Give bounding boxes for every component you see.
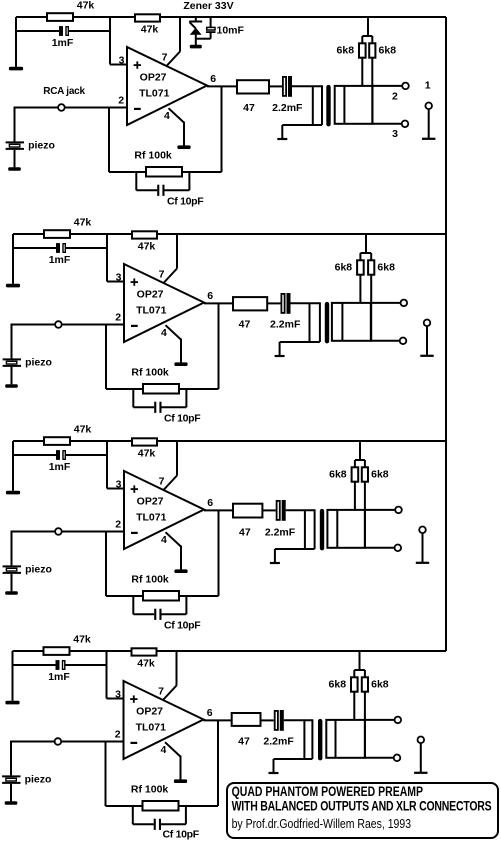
- wire: bias divider to ground ch3: [12, 441, 14, 491]
- resistor Rf 100k ch3: [143, 591, 179, 601]
- svg-text:6k8: 6k8: [329, 679, 347, 691]
- svg-text:47k: 47k: [74, 217, 92, 229]
- transformer T3 secondary winding: [327, 510, 365, 548]
- capacitor Cf 10pF ch1: [157, 185, 159, 196]
- resistor Rf 100k ch1: [146, 167, 182, 177]
- svg-text:6: 6: [210, 73, 216, 85]
- svg-text:47: 47: [238, 735, 250, 747]
- resistor 6k8 (right) ch1: [369, 43, 375, 57]
- wire: 6k8 left to secondary top ch1: [361, 58, 363, 86]
- resistor Rf 100k ch4: [143, 801, 179, 811]
- svg-text:2.2mF: 2.2mF: [272, 102, 303, 114]
- capacitor 2.2mF ch4: [275, 711, 278, 730]
- svg-text:OP27: OP27: [137, 496, 164, 508]
- ground (bias divider) ch2: [6, 284, 20, 288]
- ground (XLR pin 1) ch1: [422, 138, 435, 140]
- wire: decoupling rail ch1: [16, 30, 59, 32]
- svg-text:3: 3: [116, 478, 122, 490]
- wire: pin 6 output ch3: [204, 509, 233, 511]
- wire: primary to ground ch1: [281, 125, 283, 139]
- wire: pin 4 to ground ch2: [166, 325, 182, 339]
- wire: 47 to 2.2mF ch1: [269, 85, 282, 87]
- svg-text:6k8: 6k8: [371, 469, 389, 481]
- ground (piezo) ch3: [5, 591, 18, 595]
- ground (primary) ch1: [277, 138, 287, 140]
- resistor 6k8 (right) ch2: [368, 260, 374, 274]
- XLR pin 2 terminal ch1: [402, 83, 409, 90]
- svg-text:3: 3: [392, 128, 398, 140]
- svg-text:2: 2: [392, 90, 398, 102]
- wire: feedback bottom ch4: [106, 805, 219, 807]
- wire: piezo to ground ch4: [10, 784, 12, 802]
- wire: decoupling rail ch4: [13, 664, 56, 666]
- svg-text:2: 2: [115, 519, 121, 531]
- capacitor 2.2mF ch1: [283, 77, 286, 96]
- resistor 6k8 (left) ch1: [359, 43, 366, 57]
- XLR pin 3 terminal ch3: [395, 545, 402, 552]
- wire: Cf branch ch1: [135, 172, 137, 190]
- wire: pin 4 to ground ch4: [165, 742, 181, 756]
- wire: input to -input ch2: [12, 324, 56, 326]
- wire: pin 6 output ch2: [204, 302, 233, 304]
- ground (piezo) ch4: [5, 801, 18, 805]
- wire: XLR pin 2 ch3: [365, 509, 395, 511]
- svg-text:piezo: piezo: [25, 356, 52, 368]
- transformer T3 core: [320, 509, 324, 551]
- wire: piezo to ground ch2: [11, 367, 13, 385]
- svg-text:2: 2: [115, 312, 121, 324]
- RCA jack connector ch4: [55, 738, 62, 745]
- svg-text:6: 6: [207, 707, 213, 719]
- capacitor 1mF ch4: [56, 660, 60, 670]
- svg-text:3: 3: [119, 54, 125, 66]
- op-amp OP27/TL071 ch3: [124, 471, 204, 549]
- svg-text:47k: 47k: [73, 634, 91, 646]
- wire: supply rail channel 1: [16, 16, 446, 18]
- svg-text:2.2mF: 2.2mF: [265, 527, 296, 539]
- wire: pin 7 to supply ch1: [179, 17, 181, 52]
- capacitor Cf 10pF ch2: [154, 402, 156, 413]
- svg-text:Rf 100k: Rf 100k: [131, 783, 169, 795]
- wire: bias node to +input ch2: [106, 234, 108, 282]
- wire: 6k8 right to secondary bottom ch2: [370, 275, 372, 341]
- resistor 47k (bias lower) ch3: [132, 438, 157, 445]
- wire: jack to pin 2 ch3: [62, 531, 124, 533]
- piezo transducer ch1: [6, 141, 24, 143]
- resistor 47 ch4: [232, 713, 261, 726]
- wire: piezo to ground ch1: [14, 150, 16, 168]
- wire: XLR pin 2 ch2: [371, 302, 401, 304]
- svg-text:by Prof.dr.Godfried-Willem Rae: by Prof.dr.Godfried-Willem Raes, 1993: [232, 818, 411, 831]
- svg-text:6k8: 6k8: [371, 679, 389, 691]
- wire: supply rail channel 2: [13, 233, 446, 235]
- XLR pin 2 terminal ch2: [401, 300, 408, 307]
- ground (primary) ch4: [269, 772, 279, 774]
- svg-text:7: 7: [159, 268, 165, 280]
- title box: [227, 783, 498, 838]
- wire: feedback right leg to output ch1: [221, 86, 223, 172]
- wire: bias node to +input ch4: [106, 651, 108, 699]
- svg-text:piezo: piezo: [25, 563, 52, 575]
- svg-text:47: 47: [243, 102, 255, 114]
- resistor 6k8 (left) ch2: [357, 260, 364, 274]
- XLR pin 1 terminal ch1: [425, 103, 432, 110]
- wire: 2.2mF to transformer primary ch4: [284, 719, 313, 721]
- XLR pin 1 terminal ch2: [424, 320, 431, 327]
- wire: phantom feed ch1: [367, 17, 369, 36]
- ground (pin 4) ch4: [174, 779, 187, 783]
- transformer T2 primary winding: [309, 303, 311, 342]
- capacitor 10mF: [210, 17, 212, 28]
- svg-text:4: 4: [161, 534, 167, 546]
- svg-text:6: 6: [207, 497, 213, 509]
- svg-text:6k8: 6k8: [329, 469, 347, 481]
- wire: feedback right leg to output ch2: [218, 303, 220, 389]
- XLR pin 3 terminal ch4: [394, 755, 401, 762]
- wire: input to -input ch3: [12, 531, 56, 533]
- wire: feedback left leg ch3: [105, 532, 107, 597]
- svg-text:TL071: TL071: [139, 87, 170, 99]
- transformer T1 primary winding: [312, 86, 314, 125]
- svg-text:6k8: 6k8: [335, 262, 353, 274]
- svg-text:6: 6: [207, 290, 213, 302]
- wire: 6k8 left to secondary top ch4: [353, 692, 355, 720]
- svg-text:6k8: 6k8: [337, 45, 355, 57]
- svg-text:Cf 10pF: Cf 10pF: [167, 196, 204, 208]
- svg-text:WITH BALANCED OUTPUTS AND XLR: WITH BALANCED OUTPUTS AND XLR CONNECTORS: [232, 798, 492, 814]
- resistor 47 ch1: [237, 80, 269, 93]
- wire: XLR pin 3 ch2: [371, 340, 400, 342]
- wire: primary to ground ch4: [273, 759, 275, 773]
- resistor 47k (bias lower) ch2: [132, 231, 157, 238]
- resistor 47k (bias upper) ch3: [44, 437, 70, 445]
- svg-text:OP27: OP27: [137, 289, 164, 301]
- svg-text:OP27: OP27: [140, 72, 167, 84]
- ground (piezo) ch1: [8, 167, 21, 171]
- wire: jack to pin 2 ch2: [62, 324, 124, 326]
- wire: Cf branch ch4: [132, 806, 134, 824]
- wire: feedback right leg to output ch3: [218, 510, 220, 596]
- wire: pin 7 to supply ch4: [176, 651, 178, 686]
- resistor 47k (bias lower) ch4: [132, 648, 157, 655]
- wire: 2.2mF to transformer primary ch3: [286, 509, 315, 511]
- ground (zener): [190, 45, 202, 49]
- resistor 6k8 (left) ch3: [352, 467, 359, 481]
- wire: decoupling rail ch3: [13, 454, 56, 456]
- transformer T2 core: [325, 302, 329, 344]
- svg-text:7: 7: [158, 685, 164, 697]
- resistor 6k8 (left) ch4: [351, 677, 358, 691]
- wire: 2.2mF to transformer primary ch1: [292, 85, 322, 87]
- resistor 6k8 (right) ch3: [362, 467, 368, 481]
- XLR pin 1 terminal ch4: [418, 737, 425, 744]
- svg-text:Rf 100k: Rf 100k: [131, 573, 169, 585]
- piezo transducer ch3: [3, 565, 21, 567]
- svg-text:47k: 47k: [138, 448, 156, 460]
- wire: phantom feed ch4: [359, 651, 361, 670]
- wire: XLR pin 3 ch3: [365, 547, 395, 549]
- capacitor 2.2mF ch2: [281, 294, 284, 313]
- wire: primary to ground ch2: [279, 342, 281, 356]
- resistor 47 ch3: [233, 504, 262, 518]
- wire: 47 to 2.2mF ch2: [267, 302, 280, 304]
- wire: phantom feed ch2: [365, 234, 367, 253]
- RCA jack connector ch2: [55, 321, 62, 328]
- wire: input drop to piezo ch1: [14, 107, 16, 142]
- wire: 47 to 2.2mF ch3: [262, 509, 275, 511]
- ground (XLR pin 1) ch3: [416, 562, 429, 564]
- svg-text:2: 2: [115, 729, 121, 741]
- wire: jack to pin 2 ch4: [61, 741, 123, 743]
- svg-text:piezo: piezo: [25, 773, 52, 785]
- wire: input drop to piezo ch3: [11, 531, 13, 566]
- wire: feedback left leg ch4: [105, 742, 107, 807]
- XLR pin 2 terminal ch3: [395, 507, 402, 514]
- wire: XLR pin 1 to ground ch2: [426, 326, 428, 356]
- RCA jack connector ch3: [55, 528, 62, 535]
- wire: primary to ground ch3: [274, 549, 276, 563]
- svg-text:1mF: 1mF: [52, 37, 74, 49]
- resistor Rf 100k ch2: [143, 384, 179, 394]
- XLR pin 3 terminal ch1: [402, 121, 409, 128]
- wire: decoupling rail ch2: [13, 247, 56, 249]
- svg-text:Zener 33V: Zener 33V: [183, 0, 233, 12]
- wire: supply rail channel 3: [13, 440, 446, 442]
- svg-text:7: 7: [159, 475, 165, 487]
- wire: 6k8 left to secondary top ch3: [354, 482, 356, 510]
- capacitor 1mF ch1: [59, 26, 63, 36]
- wire: bias divider to ground ch4: [12, 651, 14, 701]
- svg-text:3: 3: [115, 688, 121, 700]
- svg-text:Cf 10pF: Cf 10pF: [162, 829, 199, 841]
- svg-text:47k: 47k: [77, 0, 95, 12]
- wire: input to -input ch4: [11, 741, 55, 743]
- svg-text:OP27: OP27: [136, 706, 163, 718]
- wire: feedback bottom ch3: [106, 595, 219, 597]
- svg-text:47: 47: [239, 527, 251, 539]
- svg-text:Cf 10pF: Cf 10pF: [164, 413, 201, 425]
- wire: jack to pin 2 ch1: [65, 107, 127, 109]
- capacitor 1mF ch2: [56, 243, 60, 253]
- svg-text:TL071: TL071: [136, 304, 167, 316]
- svg-text:2.2mF: 2.2mF: [263, 735, 294, 747]
- XLR pin 3 terminal ch2: [400, 338, 407, 345]
- RCA jack connector ch1: [58, 104, 65, 111]
- wire: pin 6 output ch4: [204, 719, 232, 721]
- svg-text:4: 4: [161, 327, 167, 339]
- zener diode 33V: [195, 17, 197, 22]
- svg-text:TL071: TL071: [136, 721, 167, 733]
- op-amp OP27/TL071 ch1: [127, 47, 207, 125]
- transformer T1 secondary winding: [335, 86, 373, 124]
- svg-text:4: 4: [164, 110, 170, 122]
- op-amp OP27/TL071 ch2: [124, 264, 204, 342]
- transformer T4 core: [318, 719, 322, 761]
- wire: input to -input ch1: [15, 107, 59, 109]
- XLR pin 1 terminal ch3: [419, 527, 426, 534]
- ground (XLR pin 1) ch4: [414, 772, 427, 774]
- wire: feedback left leg ch1: [108, 108, 110, 173]
- XLR pin 2 terminal ch4: [395, 717, 402, 724]
- svg-text:1mF: 1mF: [49, 254, 71, 266]
- svg-text:47k: 47k: [138, 241, 156, 253]
- wire: input drop to piezo ch4: [10, 741, 12, 776]
- capacitor Cf 10pF ch3: [154, 609, 156, 620]
- svg-text:47k: 47k: [137, 658, 155, 670]
- svg-text:piezo: piezo: [28, 139, 55, 151]
- svg-text:RCA jack: RCA jack: [43, 86, 85, 97]
- svg-text:1mF: 1mF: [48, 671, 70, 683]
- wire: Cf branch ch3: [132, 596, 134, 614]
- ground (bias divider) ch4: [5, 701, 19, 705]
- wire: XLR pin 3 ch4: [365, 757, 394, 759]
- resistor 47k (bias lower) ch1: [135, 14, 160, 21]
- transformer T1 core: [326, 85, 330, 127]
- ground (pin 4) ch2: [174, 362, 187, 366]
- wire: XLR pin 3 ch1: [373, 123, 402, 125]
- ground (pin 4) ch1: [177, 145, 190, 149]
- ground (primary) ch3: [270, 562, 280, 564]
- capacitor 1mF ch3: [56, 450, 60, 460]
- wire: phantom feed ch3: [359, 441, 361, 460]
- wire: 6k8 right to secondary bottom ch4: [364, 692, 366, 758]
- wire: 6k8 right to secondary bottom ch1: [371, 58, 373, 124]
- wire: 2.2mF to transformer primary ch2: [291, 302, 320, 304]
- resistor 47 ch2: [233, 297, 267, 310]
- svg-text:10mF: 10mF: [217, 24, 245, 36]
- wire: feedback right leg to output ch4: [217, 720, 219, 806]
- wire: XLR pin 1 to ground ch1: [428, 109, 430, 139]
- wire: pin 6 output ch1: [207, 85, 237, 87]
- wire: XLR pin 1 to ground ch3: [422, 533, 424, 563]
- transformer T4 primary winding: [303, 720, 305, 759]
- svg-text:47: 47: [239, 319, 251, 331]
- wire: pin 4 to ground ch1: [169, 108, 185, 122]
- transformer T4 secondary winding: [326, 720, 365, 758]
- wire: XLR pin 2 ch1: [373, 85, 403, 87]
- resistor 47k (bias upper) ch2: [44, 230, 70, 238]
- wire: bias divider to ground ch2: [12, 234, 14, 284]
- wire: pin 4 to ground ch3: [166, 532, 182, 546]
- wire: feedback left leg ch2: [105, 325, 107, 390]
- wire: bias node to +input ch3: [106, 441, 108, 489]
- svg-text:2.2mF: 2.2mF: [270, 319, 301, 331]
- svg-text:2: 2: [118, 95, 124, 107]
- ground (bias divider) ch1: [9, 67, 23, 71]
- svg-text:47k: 47k: [74, 424, 92, 436]
- wire: input drop to piezo ch2: [11, 324, 13, 359]
- resistor 47k (bias upper) ch1: [47, 13, 73, 21]
- wire: 47 to 2.2mF ch4: [261, 719, 274, 721]
- wire: phantom supply bus (right side): [445, 17, 447, 651]
- svg-text:TL071: TL071: [136, 511, 167, 523]
- piezo transducer ch4: [2, 775, 20, 777]
- svg-text:4: 4: [160, 744, 166, 756]
- transformer T3 primary winding: [304, 510, 306, 549]
- wire: pin 7 to supply ch2: [176, 234, 178, 269]
- ground (piezo) ch2: [5, 384, 18, 388]
- wire: pin 7 to supply ch3: [176, 441, 178, 476]
- capacitor Cf 10pF ch4: [154, 819, 156, 830]
- wire: piezo to ground ch3: [11, 574, 13, 592]
- transformer T2 secondary winding: [332, 303, 371, 341]
- ground (XLR pin 1) ch2: [420, 355, 433, 357]
- wire: bias node to +input ch1: [109, 17, 111, 65]
- wire: Cf branch ch2: [132, 389, 134, 407]
- wire: 10mF to zener anode: [196, 38, 211, 40]
- resistor 6k8 (right) ch4: [362, 677, 368, 691]
- svg-text:Cf 10pF: Cf 10pF: [164, 620, 201, 632]
- svg-text:47k: 47k: [141, 24, 159, 36]
- svg-text:3: 3: [116, 271, 122, 283]
- wire: feedback bottom ch2: [106, 388, 219, 390]
- wire: 6k8 right to secondary bottom ch3: [364, 482, 366, 548]
- wire: bias divider to ground ch1: [15, 17, 17, 67]
- svg-text:1mF: 1mF: [49, 461, 71, 473]
- svg-text:Rf 100k: Rf 100k: [134, 149, 172, 161]
- op-amp OP27/TL071 ch4: [124, 681, 204, 759]
- ground (bias divider) ch3: [6, 491, 20, 495]
- svg-text:1: 1: [425, 80, 431, 92]
- svg-text:Rf 100k: Rf 100k: [131, 366, 169, 378]
- wire: XLR pin 2 ch4: [365, 719, 395, 721]
- wire: feedback bottom ch1: [109, 171, 222, 173]
- wire: XLR pin 1 to ground ch4: [420, 743, 422, 773]
- svg-text:6k8: 6k8: [379, 45, 397, 57]
- wire: 6k8 left to secondary top ch2: [359, 275, 361, 303]
- capacitor 2.2mF ch3: [277, 501, 280, 520]
- svg-text:6k8: 6k8: [377, 262, 395, 274]
- wire: supply rail channel 4: [13, 650, 447, 652]
- resistor 47k (bias upper) ch4: [44, 647, 70, 655]
- ground (primary) ch2: [275, 355, 285, 357]
- piezo transducer ch2: [3, 358, 21, 360]
- ground (pin 4) ch3: [174, 569, 187, 573]
- svg-text:7: 7: [162, 51, 168, 63]
